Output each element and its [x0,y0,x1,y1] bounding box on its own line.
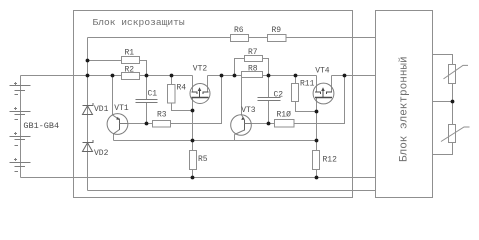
svg-text:R5: R5 [198,155,208,164]
svg-text:R1: R1 [125,48,135,57]
svg-text:R4: R4 [177,84,187,93]
svg-text:R2: R2 [125,66,135,75]
svg-text:VD1: VD1 [94,105,109,114]
svg-text:R8: R8 [248,64,258,73]
svg-text:VT2: VT2 [193,65,208,74]
svg-text:VT3: VT3 [241,106,256,115]
svg-text:GB1-GB4: GB1-GB4 [23,121,59,131]
svg-text:R12: R12 [323,155,338,164]
svg-text:VT4: VT4 [315,67,330,76]
svg-text:R7: R7 [248,48,258,57]
svg-text:Блок электронный: Блок электронный [399,56,411,162]
svg-text:C2: C2 [274,91,284,100]
svg-text:R6: R6 [234,26,244,35]
svg-text:R1Ø: R1Ø [277,111,292,120]
svg-text:VT1: VT1 [114,104,129,113]
svg-text:R3: R3 [157,111,167,120]
svg-text:R9: R9 [272,26,282,35]
svg-text:C1: C1 [148,89,158,98]
svg-text:Блок искрозащиты: Блок искрозащиты [93,17,185,28]
svg-text:VD2: VD2 [94,149,109,158]
svg-text:R11: R11 [300,79,315,88]
